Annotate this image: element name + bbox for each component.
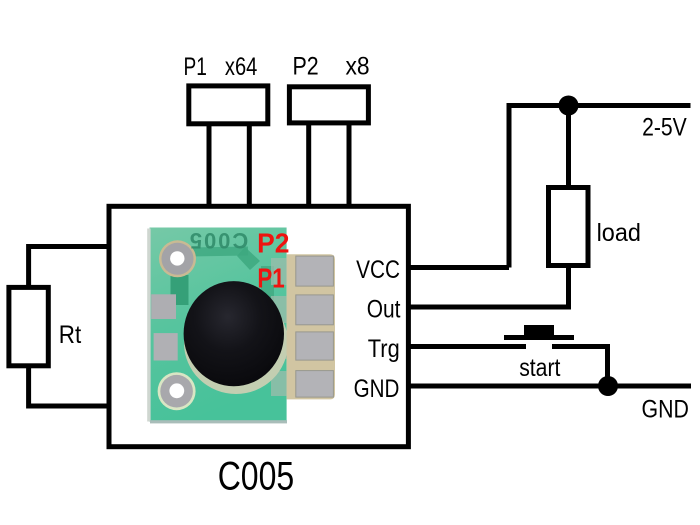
svg-text:C005: C005: [188, 228, 248, 253]
wire Rt top: [29, 247, 109, 288]
PCB bottom hole: [169, 383, 184, 398]
svg-text:x64: x64: [225, 53, 257, 81]
switch start cap: [524, 325, 554, 335]
PCB pad inner extension 1: [271, 258, 288, 285]
resistor load: [549, 188, 589, 266]
svg-text:P1: P1: [257, 263, 284, 294]
svg-text:P2: P2: [293, 53, 319, 81]
PCB bottom hole annulus: [160, 375, 193, 408]
wire P1 pin 1: [207, 124, 212, 206]
PCB trace under silkscreen: [190, 246, 248, 256]
svg-text:x8: x8: [346, 53, 370, 81]
svg-text:P2: P2: [257, 227, 289, 258]
jumper P1: [189, 86, 268, 124]
PCB diagonal trace: [237, 247, 260, 270]
module box C005: [109, 206, 408, 446]
wire load to Out: [408, 266, 568, 308]
PCB pad 3 Trg: [296, 332, 334, 360]
PCB pad block: [287, 254, 335, 399]
svg-text:Out: Out: [367, 296, 401, 324]
wire switch to GND rail: [552, 347, 608, 387]
PCB epoxy blob: [184, 281, 284, 386]
PCB trace right of blob: [261, 266, 274, 302]
svg-text:GND: GND: [354, 375, 400, 403]
wire P1 pin 2: [247, 124, 252, 206]
switch start bar: [504, 335, 574, 340]
svg-text:VCC: VCC: [356, 256, 400, 284]
resistor Rt: [9, 287, 48, 365]
svg-text:start: start: [519, 354, 560, 382]
svg-text:Trg: Trg: [368, 335, 400, 363]
PCB pale halo under blob: [184, 292, 288, 394]
PCB top hole annulus: [162, 243, 194, 275]
PCB left edge highlight: [147, 229, 150, 422]
svg-text:load: load: [597, 219, 641, 247]
PCB module photo: [147, 227, 335, 423]
PCB left pad 1: [151, 294, 176, 319]
PCB pad inner extension 3: [271, 333, 288, 359]
wire rail to load: [566, 106, 571, 188]
PCB trace below top hole: [171, 275, 189, 305]
PCB pad inner extension 2: [271, 296, 288, 323]
svg-text:Rt: Rt: [59, 321, 81, 349]
PCB bottom edge shadow: [150, 420, 287, 423]
wire VCC: [408, 265, 509, 270]
power rail 2-5V: [566, 103, 691, 108]
svg-text:2-5V: 2-5V: [642, 114, 687, 142]
junction dot A: [559, 96, 579, 116]
ground rail GND: [408, 384, 691, 389]
svg-text:P1: P1: [184, 53, 207, 81]
PCB board: [150, 228, 287, 422]
PCB pad 4 GND: [296, 371, 334, 398]
wire Rt bottom: [29, 366, 109, 406]
PCB bottom hole pale ring: [158, 372, 196, 410]
junction dot B: [598, 376, 618, 396]
svg-text:C005: C005: [218, 454, 295, 498]
jumper P2: [289, 87, 368, 123]
svg-text:GND: GND: [642, 396, 689, 424]
wire Trg: [408, 344, 526, 349]
wire P2 pin 1: [306, 123, 311, 206]
PCB pad 2 Out: [296, 295, 334, 325]
wire VCC riser: [509, 106, 569, 268]
PCB left pad 2: [154, 333, 178, 360]
PCB pad inner extension 4: [271, 371, 288, 396]
PCB top hole tan ring: [159, 240, 196, 277]
PCB pad 1 VCC: [296, 256, 334, 286]
PCB top hole: [170, 251, 184, 265]
wire P2 pin 2: [347, 123, 352, 206]
